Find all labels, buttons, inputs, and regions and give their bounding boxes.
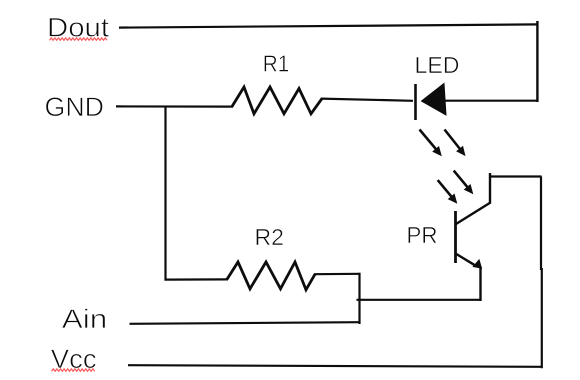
spellcheck underline under Dout — [50, 38, 108, 40]
wire GND branch vertical — [164, 107, 166, 281]
wire emitter to junction — [357, 299, 482, 301]
svg-text:R1: R1 — [263, 50, 290, 76]
spellcheck underline under Vcc — [52, 369, 95, 371]
junction vertical — [358, 273, 360, 324]
light arrow 4 — [438, 180, 458, 204]
svg-text:GND: GND — [45, 92, 105, 122]
svg-text:PR: PR — [407, 222, 438, 248]
LED triangle — [422, 84, 447, 116]
wire R2 to junction — [314, 273, 361, 276]
light arrow 1 — [420, 130, 442, 157]
wire LED anode — [445, 100, 538, 102]
wire GND — [116, 105, 233, 107]
svg-text:LED: LED — [415, 52, 460, 78]
phototransistor collector lead — [489, 173, 491, 204]
phototransistor emitter diagonal with arrow — [456, 254, 483, 269]
wire right rail top: Dout to LED anode — [536, 21, 538, 102]
wire R1 to LED cathode — [321, 99, 413, 101]
wire Vcc — [128, 365, 543, 367]
svg-text:Dout: Dout — [47, 13, 110, 43]
light arrow 3 — [454, 171, 474, 195]
phototransistor collector diagonal — [456, 203, 491, 225]
phototransistor PR base bar — [454, 211, 457, 263]
wire collector to right rail — [489, 175, 542, 177]
svg-text:Ain: Ain — [62, 304, 108, 334]
phototransistor emitter lead — [479, 267, 481, 301]
svg-text:R2: R2 — [255, 224, 285, 250]
wire GND branch to R2 — [165, 278, 229, 280]
resistor R1 — [232, 87, 322, 114]
LED cathode bar — [414, 84, 417, 120]
light arrow 2 — [445, 130, 466, 157]
resistor R2 — [227, 262, 315, 290]
wire right rail upper segment — [540, 177, 542, 271]
wire Ain — [130, 322, 361, 324]
wire right rail lower segment — [541, 268, 543, 368]
wire Dout — [119, 24, 538, 27]
